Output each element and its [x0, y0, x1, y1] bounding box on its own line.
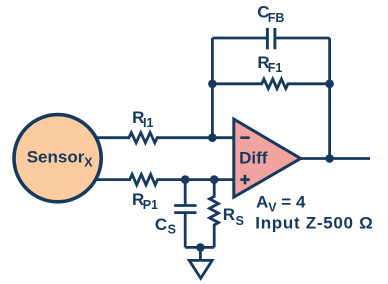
svg-text:FB: FB [268, 11, 285, 25]
capacitor CFB [267, 28, 275, 49]
wire left feedback vertical [211, 38, 214, 138]
svg-text:Input Z-500 Ω: Input Z-500 Ω [255, 214, 373, 233]
op-amp plus pin label [240, 175, 249, 184]
svg-text:X: X [84, 156, 93, 170]
wire right feedback vertical [328, 38, 331, 159]
capacitor CS stem top [184, 180, 187, 205]
resistor RS vertical zigzag [210, 180, 219, 248]
svg-text:F1: F1 [268, 61, 283, 75]
svg-text:S: S [236, 214, 244, 228]
svg-text:P1: P1 [143, 198, 158, 212]
node feedback left junction [208, 80, 217, 89]
sensor circle [14, 115, 101, 202]
svg-text:= 4: = 4 [281, 193, 306, 212]
node RS junction [210, 175, 219, 184]
wire CFB branch left [212, 37, 266, 40]
node minus input junction [208, 133, 217, 142]
ground [189, 260, 212, 278]
node ground junction [196, 243, 205, 252]
svg-text:S: S [168, 223, 176, 237]
op-amp minus pin label [240, 136, 249, 139]
capacitor CS plates [174, 206, 196, 213]
op-amp U1 [234, 119, 301, 197]
capacitor CS stem bottom [184, 214, 187, 248]
wire bottom connector [185, 246, 214, 249]
wire bottom input with resistor RP1 zigzag [92, 174, 234, 185]
node output junction [325, 154, 334, 163]
svg-text:C: C [155, 215, 167, 234]
wire ground stem [199, 247, 202, 260]
svg-text:Sensor: Sensor [27, 148, 85, 167]
node CS junction [181, 175, 190, 184]
svg-text:Diff: Diff [239, 148, 268, 167]
svg-text:A: A [256, 193, 268, 212]
wire CFB branch right [276, 37, 329, 40]
svg-text:R: R [223, 205, 235, 224]
wire output [301, 157, 370, 160]
wire RF1 branch with resistor RF1 zigzag [212, 79, 329, 89]
svg-text:V: V [268, 200, 277, 214]
svg-text:I1: I1 [143, 116, 153, 130]
wire top input with resistor RI1 zigzag [91, 133, 234, 143]
node feedback right junction [325, 80, 334, 89]
